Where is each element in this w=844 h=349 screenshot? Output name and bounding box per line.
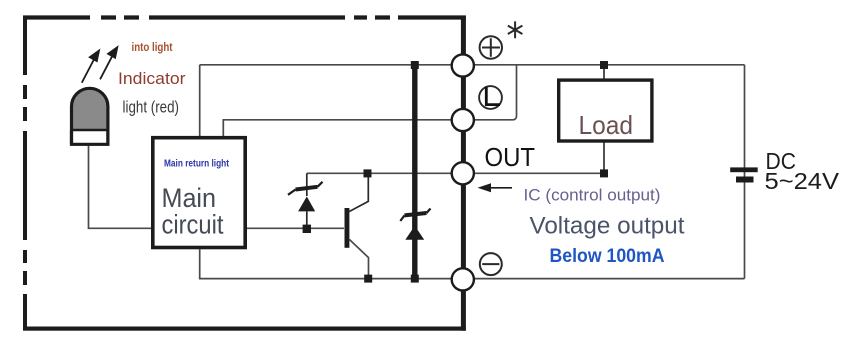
svg-text:Voltage output: Voltage output: [530, 213, 685, 240]
wire load top lead: [603, 65, 605, 79]
terminal 3 OUT: [452, 162, 474, 184]
light emission arrow 1: [82, 51, 99, 83]
junction node (load bottom): [600, 169, 608, 177]
junction node (zener anode): [303, 225, 311, 233]
svg-text:Below 100mA: Below 100mA: [550, 246, 665, 267]
wire bottom rail: [200, 249, 745, 278]
IC output arrow: [478, 183, 513, 192]
battery BT1: [730, 167, 758, 182]
enclosure dashed left border: [23, 16, 27, 331]
wire from top rail down to main circuit top: [199, 65, 201, 137]
minus symbol: [480, 253, 502, 275]
svg-text:IC (control output): IC (control output): [524, 187, 661, 205]
zener diode ZD2 (thick shunt line): [400, 65, 430, 279]
svg-text:into light: into light: [132, 42, 173, 54]
main circuit box: [153, 138, 245, 248]
svg-text:Main: Main: [162, 183, 217, 213]
zener diode ZD1 (on base rail): [288, 173, 323, 229]
junction node (load top): [600, 61, 608, 69]
asterisk: [508, 21, 523, 38]
plus symbol: [480, 36, 502, 58]
wire base rail from LED column to main circuit: [89, 144, 152, 228]
wire base rail from main circuit to transistor: [247, 227, 344, 229]
svg-text:light (red): light (red): [123, 99, 180, 117]
svg-text:5~24V: 5~24V: [765, 168, 840, 194]
wire load bottom lead: [603, 143, 605, 174]
svg-text:OUT: OUT: [485, 144, 536, 172]
junction node (emitter): [364, 275, 372, 283]
terminal strip (enclosure right border): [461, 16, 466, 331]
L symbol (terminal 2): [479, 86, 502, 109]
junction node (shunt bottom): [411, 275, 419, 283]
wire OUT rail: [307, 172, 604, 174]
terminal 4 (-): [452, 268, 474, 290]
svg-text:circuit: circuit: [162, 210, 224, 240]
wire battery column: [744, 65, 746, 279]
indicator LED: [72, 88, 108, 144]
svg-text:Main return light: Main return light: [164, 158, 229, 170]
terminal 1 (+): [452, 54, 474, 76]
junction node (collector): [364, 169, 372, 177]
label: DC 5~24V: [765, 148, 840, 194]
terminal 2: [452, 109, 474, 131]
light emission arrow 2: [100, 47, 117, 79]
wire terminal2 rail: [223, 65, 516, 137]
wire top rail from node A to battery: [200, 64, 745, 66]
load box: [559, 80, 652, 141]
enclosure dashed top border: [23, 15, 466, 19]
transistor Q1: [345, 177, 369, 279]
junction node (shunt top): [411, 61, 419, 69]
enclosure solid bottom border: [23, 327, 466, 331]
label: Main circuit: [162, 183, 224, 240]
svg-text:Load: Load: [579, 110, 634, 140]
svg-text:Indicator: Indicator: [118, 69, 186, 88]
